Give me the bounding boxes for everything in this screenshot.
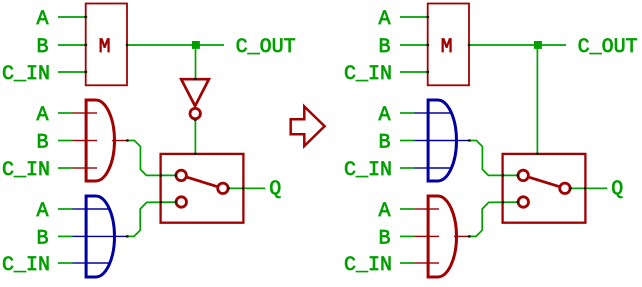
junction on C_OUT net (left) [192, 41, 200, 49]
wire net C_IN to M box (right) [400, 71, 429, 73]
svg-text:B: B [37, 132, 49, 155]
svg-text:A: A [37, 8, 49, 31]
gate G4 body (red D-gate, right) [428, 196, 456, 277]
pin B of gate G4 [415, 235, 429, 237]
svg-text:A: A [379, 8, 391, 31]
svg-text:M: M [99, 36, 111, 59]
wire C_OUT net from M output (right) [469, 44, 566, 46]
mux box (left) [161, 154, 244, 223]
svg-text:C_IN: C_IN [2, 254, 50, 277]
gate G4 inner pin stubs [428, 208, 439, 210]
svg-text:C_IN: C_IN [2, 63, 50, 86]
svg-text:M: M [441, 36, 453, 59]
mux contact circle bottom-left [176, 197, 186, 207]
mux contact circle right (right) [560, 183, 570, 193]
pin A of gate G1 [73, 112, 87, 114]
svg-text:C_IN: C_IN [344, 159, 392, 182]
wire net B to M box (right) [400, 44, 429, 46]
wire net C_IN to gate G1 [58, 167, 73, 169]
wire net A to gate G3 [400, 112, 415, 114]
gate G4 output pin [454, 235, 469, 237]
svg-text:B: B [379, 227, 391, 250]
svg-text:Q: Q [611, 178, 623, 201]
inverter bubble [190, 108, 200, 118]
mux switch lever (right) [529, 177, 558, 186]
svg-text:A: A [37, 200, 49, 223]
junction on C_OUT net (right) [534, 41, 542, 49]
mux contact circle top-left [176, 170, 186, 180]
gate G2 inner pin lines [86, 208, 109, 210]
gate G2 body (blue D-gate, left) [86, 196, 114, 277]
svg-text:B: B [37, 36, 49, 59]
wire net C_IN to gate G3 [400, 167, 415, 169]
svg-text:B: B [379, 132, 391, 155]
wire net A to gate G4 [400, 208, 415, 210]
gate G1 inner pin stubs [86, 112, 97, 114]
wire G4 output to mux input 2 (right) [469, 202, 518, 236]
wire net B to gate G2 [58, 235, 73, 237]
pin B of gate G3 [415, 140, 429, 142]
svg-text:A: A [379, 200, 391, 223]
gate G1 body (red D-gate, left) [86, 100, 114, 181]
mux switch lever [187, 177, 216, 186]
gate G1 output pin [112, 140, 127, 142]
svg-text:C_OUT: C_OUT [578, 36, 638, 59]
mux contact circle top-left (right) [518, 170, 528, 180]
wire net C_IN to gate G4 [400, 262, 415, 264]
pin A of gate G3 [415, 112, 429, 114]
wire G3 output to mux input 1 (right) [469, 141, 518, 176]
wire C_OUT net from M output [127, 44, 224, 46]
mux contact circle bottom-left (right) [518, 197, 528, 207]
wire net A to gate G1 [58, 112, 73, 114]
wire mux output to Q (right) [570, 187, 608, 189]
wire G1 output to mux input 1 [127, 141, 176, 176]
wire net A to M box [58, 16, 87, 18]
mux box (right) [503, 154, 586, 223]
pin C_IN of gate G4 [415, 262, 429, 264]
wire net B to gate G3 [400, 140, 415, 142]
majority gate M box (right) [428, 4, 469, 86]
wire net A to gate G2 [58, 208, 73, 210]
gate G3 output pin [456, 140, 469, 142]
wire net C_IN to M box [58, 71, 87, 73]
gate G3 body (blue D-gate, right) [428, 100, 456, 181]
wire net C_IN to gate G2 [58, 262, 73, 264]
inverter triangle (left) [181, 79, 209, 106]
wire inverter output to mux select [194, 121, 196, 155]
svg-text:B: B [37, 227, 49, 250]
pin B of gate G1 [73, 140, 87, 142]
svg-text:C_IN: C_IN [344, 254, 392, 277]
svg-text:C_IN: C_IN [2, 159, 50, 182]
svg-text:B: B [379, 36, 391, 59]
majority gate M box (left) [86, 4, 127, 86]
wire net B to M box [58, 44, 87, 46]
gate G3 inner pin lines [428, 112, 451, 114]
wire net B to gate G4 [400, 235, 415, 237]
wire junction down to mux select (right, no inverter) [536, 45, 538, 154]
wire mux output to Q [228, 187, 265, 189]
svg-text:C_IN: C_IN [344, 63, 392, 86]
wire junction down to inverter [195, 45, 197, 79]
pin C_IN of gate G2 [73, 262, 87, 264]
arrow between circuits [291, 107, 325, 147]
wire net B to gate G1 [58, 140, 73, 142]
pin A of gate G4 [415, 208, 429, 210]
svg-text:Q: Q [269, 178, 281, 201]
mux contact circle right [218, 183, 228, 193]
gate G2 output pin [114, 235, 127, 237]
svg-text:C_OUT: C_OUT [236, 36, 296, 59]
pin B of gate G2 [73, 235, 87, 237]
svg-text:A: A [37, 104, 49, 127]
wire net A to M box (right) [400, 16, 429, 18]
svg-text:A: A [379, 104, 391, 127]
pin A of gate G2 [73, 208, 87, 210]
wire crossing dark overlaps [85, 16, 587, 238]
pin C_IN of gate G1 [73, 167, 87, 169]
pin C_IN of gate G3 [415, 167, 429, 169]
wire G2 output to mux input 2 [127, 202, 176, 236]
